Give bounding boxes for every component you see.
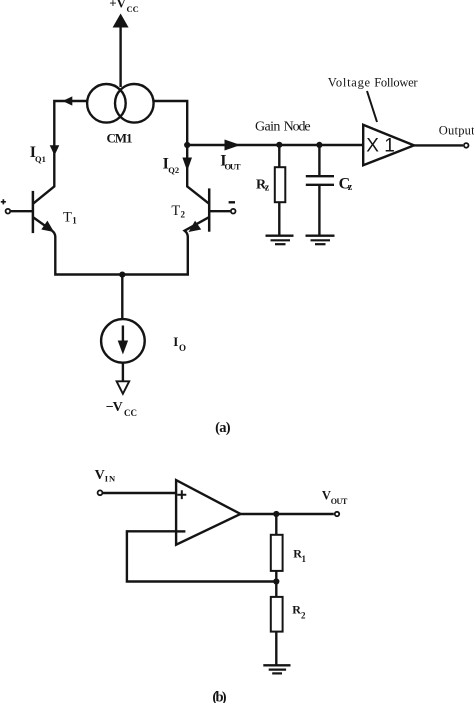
svg-text:Output: Output [439, 124, 474, 138]
svg-text:V: V [95, 468, 105, 483]
svg-text:+V: +V [109, 0, 126, 11]
svg-text:O: O [179, 343, 186, 353]
svg-text:OUT: OUT [331, 497, 348, 506]
svg-text:R: R [292, 603, 301, 617]
svg-text:CC: CC [127, 4, 139, 14]
svg-text:Q1: Q1 [35, 154, 46, 164]
svg-text:OUT: OUT [225, 162, 241, 172]
svg-text:CC: CC [124, 408, 137, 418]
svg-text:(b): (b) [212, 690, 226, 703]
svg-text:1: 1 [302, 554, 307, 564]
svg-text:Node: Node [284, 120, 311, 135]
svg-text:−V: −V [106, 400, 123, 415]
svg-text:1: 1 [384, 136, 395, 157]
svg-text:Q2: Q2 [168, 165, 179, 175]
svg-text:CM1: CM1 [107, 130, 133, 145]
svg-text:Follower: Follower [374, 75, 418, 89]
svg-text:2: 2 [181, 209, 186, 219]
svg-text:(a): (a) [215, 420, 231, 436]
svg-text:X: X [366, 136, 379, 157]
svg-text:Gain: Gain [255, 120, 280, 135]
svg-text:T: T [171, 203, 180, 219]
svg-text:z: z [348, 182, 353, 193]
svg-text:2: 2 [301, 611, 306, 621]
svg-text:T: T [63, 209, 72, 225]
svg-text:1: 1 [72, 216, 77, 226]
svg-text:Voltage: Voltage [328, 75, 371, 89]
svg-text:I: I [173, 334, 178, 349]
svg-text:z: z [265, 183, 270, 194]
svg-text:IN: IN [105, 474, 116, 484]
svg-text:V: V [322, 489, 331, 503]
